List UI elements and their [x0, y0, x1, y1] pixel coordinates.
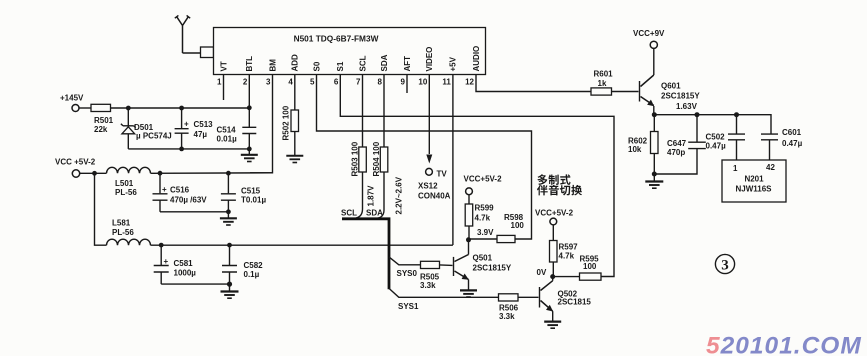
- antenna: [175, 15, 201, 53]
- svg-text:C581: C581: [174, 259, 194, 268]
- wire pin2 BTL down to +145V rail: [248, 75, 250, 108]
- svg-text:C502: C502: [706, 133, 726, 142]
- svg-text:C516: C516: [170, 186, 190, 195]
- svg-text:2.2V~2.6V: 2.2V~2.6V: [395, 176, 404, 214]
- svg-text:R501: R501: [94, 116, 114, 125]
- svg-text:22k: 22k: [94, 125, 108, 134]
- capacitor C516: [153, 173, 208, 212]
- svg-text:PL-56: PL-56: [115, 188, 137, 197]
- terminal VCC +5V-2: [72, 170, 79, 177]
- wire pin4 ADD down: [294, 75, 296, 111]
- wire R504 to bus entry: [378, 172, 385, 218]
- svg-text:BM: BM: [268, 59, 277, 72]
- svg-text:VCC+5V-2: VCC+5V-2: [464, 175, 503, 184]
- svg-text:0.47µ: 0.47µ: [782, 139, 803, 148]
- svg-text:0V: 0V: [537, 268, 547, 277]
- transistor Q601: [640, 48, 701, 114]
- ground under C515: [220, 212, 237, 225]
- capacitor C502: [706, 115, 746, 160]
- node R602 bottom: [652, 172, 657, 177]
- svg-text:S1: S1: [336, 61, 345, 71]
- svg-text:R599: R599: [475, 204, 495, 213]
- svg-text:+: +: [162, 185, 167, 194]
- transistor Q501: [454, 240, 512, 290]
- capacitor C582: [222, 245, 263, 284]
- resistor R504: [380, 147, 388, 172]
- wire terminal to R501: [79, 107, 91, 109]
- wire R506 to Q502 base: [518, 296, 539, 298]
- wire L581 rail to pin11: [151, 244, 453, 246]
- bus exit SYS1: [389, 288, 499, 297]
- resistor R506: [499, 294, 519, 301]
- antenna input stub: [201, 47, 214, 58]
- svg-text:R597: R597: [559, 243, 579, 252]
- svg-text:9: 9: [401, 78, 406, 87]
- svg-text:1000µ: 1000µ: [174, 269, 197, 278]
- ground under Q502: [544, 322, 561, 329]
- svg-text:C647: C647: [667, 139, 687, 148]
- wire pin3 BM down to L501 rail: [250, 75, 273, 173]
- svg-text:µ PC574J: µ PC574J: [136, 132, 172, 141]
- svg-text:3: 3: [266, 78, 271, 87]
- svg-text:4.7k: 4.7k: [475, 214, 491, 223]
- svg-text:SCL: SCL: [341, 209, 357, 218]
- svg-text:Q601: Q601: [661, 82, 681, 91]
- svg-text:4: 4: [288, 78, 293, 87]
- svg-text:42: 42: [766, 163, 775, 172]
- ground under R502: [286, 156, 303, 163]
- wire pin12 AUDIO down and right: [476, 75, 591, 92]
- svg-text:TV: TV: [437, 170, 448, 179]
- svg-text:6: 6: [334, 78, 339, 87]
- svg-text:SYS1: SYS1: [398, 302, 419, 311]
- svg-text:2SC1815: 2SC1815: [558, 298, 592, 307]
- svg-text:10k: 10k: [628, 145, 642, 154]
- svg-text:0.1µ: 0.1µ: [244, 270, 260, 279]
- wire +145V rail: [111, 107, 250, 109]
- terminal VCC+5V-2: [466, 188, 473, 195]
- svg-text:2SC1815Y: 2SC1815Y: [473, 264, 512, 273]
- svg-text:2: 2: [243, 78, 248, 87]
- svg-text:3.3k: 3.3k: [499, 312, 515, 321]
- ground under R602: [645, 174, 663, 188]
- capacitor C513: [175, 108, 214, 149]
- svg-text:R601: R601: [594, 70, 614, 79]
- svg-text:VIDEO: VIDEO: [425, 47, 434, 72]
- svg-text:C513: C513: [194, 120, 214, 129]
- svg-text:R502 100: R502 100: [282, 105, 291, 140]
- svg-text:1.63V: 1.63V: [676, 102, 698, 111]
- svg-text:Q501: Q501: [473, 254, 493, 263]
- resistor R599: [465, 204, 473, 226]
- wire R599 to node: [468, 226, 470, 240]
- resistor R505: [421, 261, 440, 268]
- transistor Q502: [540, 277, 592, 321]
- inductor L581: [107, 239, 151, 245]
- terminal VCC+5V-2: [550, 218, 557, 225]
- wire pin5 S0 line: [317, 75, 532, 240]
- resistor R597: [550, 241, 558, 263]
- ground under C582: [221, 284, 239, 298]
- IC N201 NJW116S box: [722, 160, 786, 202]
- wire pin1 VT stub: [223, 75, 225, 101]
- ground under Q501: [460, 290, 477, 297]
- svg-text:470µ /63V: 470µ /63V: [170, 196, 207, 205]
- capacitor C581: [154, 245, 197, 284]
- wire L501 rail: [151, 172, 273, 175]
- wire terminal to R599: [468, 195, 470, 204]
- svg-text:ADD: ADD: [291, 54, 300, 72]
- svg-text:SCL: SCL: [358, 55, 367, 71]
- wire pin8 SDA down: [383, 75, 385, 148]
- svg-text:SDA: SDA: [366, 209, 383, 218]
- node D501 top: [126, 106, 131, 111]
- node 0V: [550, 274, 555, 279]
- svg-text:AFT: AFT: [403, 56, 412, 72]
- svg-text:520101.COM: 520101.COM: [706, 333, 862, 356]
- svg-text:BTL: BTL: [245, 56, 254, 72]
- svg-text:C582: C582: [244, 261, 264, 270]
- svg-text:CON40A: CON40A: [418, 192, 451, 201]
- svg-text:5: 5: [310, 78, 315, 87]
- svg-text:C515: C515: [241, 187, 261, 196]
- wire pin11 +5V down to L581 rail: [452, 75, 454, 246]
- svg-text:+145V: +145V: [60, 94, 84, 103]
- svg-text:2SC1815Y: 2SC1815Y: [661, 92, 700, 101]
- svg-text:1.87V: 1.87V: [367, 185, 376, 207]
- svg-text:S0: S0: [312, 61, 321, 71]
- zener D501: [121, 108, 172, 149]
- svg-text:+5V: +5V: [449, 56, 458, 71]
- node C513 top: [179, 106, 184, 111]
- svg-text:SYS0: SYS0: [397, 269, 418, 278]
- node pin2/C514: [247, 105, 252, 110]
- node Q501 collector 3.9V: [466, 237, 471, 242]
- svg-text:T0.01µ: T0.01µ: [241, 196, 266, 205]
- resistor R602: [628, 115, 658, 174]
- wire node to R595: [553, 276, 580, 278]
- resistor R595: [580, 273, 602, 280]
- svg-text:C514: C514: [217, 126, 237, 135]
- svg-text:0.01µ: 0.01µ: [217, 135, 238, 144]
- wire bottom rail C516-C515: [160, 211, 228, 213]
- node VCC branch: [92, 171, 97, 176]
- svg-text:VCC+9V: VCC+9V: [633, 29, 665, 38]
- capacitor C647: [654, 115, 706, 174]
- wire VCC branch down to L581: [95, 173, 107, 245]
- wire bottom rail C581-C582: [161, 283, 229, 285]
- capacitor C601: [761, 128, 803, 160]
- svg-text:PL-56: PL-56: [112, 228, 134, 237]
- svg-text:100: 100: [511, 221, 525, 230]
- wire terminal to L501: [80, 172, 107, 174]
- wire R505 to Q501 base: [440, 264, 453, 267]
- wire R502 to ground: [294, 132, 296, 156]
- svg-text:L581: L581: [112, 219, 131, 228]
- svg-text:+: +: [184, 120, 189, 129]
- svg-text:7: 7: [356, 78, 361, 87]
- svg-text:11: 11: [442, 78, 451, 87]
- resistor R502: [291, 110, 299, 132]
- svg-text:VCC +5V-2: VCC +5V-2: [55, 158, 96, 167]
- svg-text:XS12: XS12: [418, 182, 438, 191]
- bus exit SYS0: [389, 257, 421, 265]
- svg-text:47µ: 47µ: [194, 130, 208, 139]
- svg-text:SDA: SDA: [380, 54, 389, 71]
- resistor R601: [591, 88, 612, 95]
- wire R601 to Q601 base: [612, 91, 639, 93]
- svg-text:1: 1: [733, 164, 738, 173]
- wire pin6 S1 line: [340, 75, 614, 277]
- inductor L501: [107, 167, 151, 173]
- bus line: [342, 219, 389, 289]
- wire pin10 VIDEO down to XS12 arrow: [428, 75, 430, 155]
- terminal VCC+9V: [650, 41, 657, 48]
- svg-text:3.3k: 3.3k: [420, 281, 436, 290]
- svg-text:10: 10: [418, 78, 427, 87]
- wire bottom rail D501-C513-C514: [128, 148, 249, 150]
- svg-text:1k: 1k: [598, 79, 607, 88]
- wire audio rail: [654, 115, 771, 134]
- capacitor C514: [217, 108, 257, 149]
- wire pin9 AFT stub: [406, 75, 408, 94]
- svg-text:1: 1: [217, 78, 222, 87]
- resistor R503: [359, 147, 367, 172]
- svg-text:N201: N201: [744, 175, 764, 184]
- wire pin7 SCL down: [362, 75, 364, 148]
- svg-text:470p: 470p: [667, 148, 685, 157]
- svg-text:R503 100: R503 100: [351, 141, 360, 176]
- wire R503 to bus entry: [356, 172, 363, 218]
- svg-text:VT: VT: [219, 61, 228, 71]
- wire R597 to 0V node: [552, 262, 554, 277]
- svg-text:VCC+5V-2: VCC+5V-2: [535, 209, 574, 218]
- svg-text:R504 100: R504 100: [372, 141, 381, 176]
- svg-text:12: 12: [465, 78, 474, 87]
- terminal circle XS12 TV: [426, 168, 433, 175]
- svg-text:+: +: [164, 257, 169, 266]
- terminal +145V: [72, 105, 79, 112]
- svg-text:8: 8: [378, 78, 383, 87]
- page number circled 3: [715, 254, 734, 273]
- svg-text:NJW116S: NJW116S: [735, 185, 772, 194]
- wire node to R598: [469, 238, 498, 240]
- svg-text:100: 100: [583, 262, 597, 271]
- svg-text:C601: C601: [782, 128, 802, 137]
- svg-text:3: 3: [721, 258, 729, 274]
- svg-text:N501 TDQ-6B7-FM3W: N501 TDQ-6B7-FM3W: [294, 34, 379, 44]
- tuner N501 box: [214, 28, 486, 75]
- svg-text:AUDIO: AUDIO: [472, 46, 481, 72]
- capacitor C515: [221, 173, 267, 212]
- wire terminal to R597: [552, 225, 554, 241]
- svg-text:4.7k: 4.7k: [559, 252, 575, 261]
- resistor R598: [497, 235, 515, 242]
- svg-text:0.47µ: 0.47µ: [706, 142, 727, 151]
- resistor R501: [91, 104, 111, 111]
- svg-text:L501: L501: [115, 179, 134, 188]
- svg-text:3.9V: 3.9V: [477, 228, 494, 237]
- label 多制式 伴音切换: [537, 174, 582, 195]
- ground under C514: [241, 149, 258, 162]
